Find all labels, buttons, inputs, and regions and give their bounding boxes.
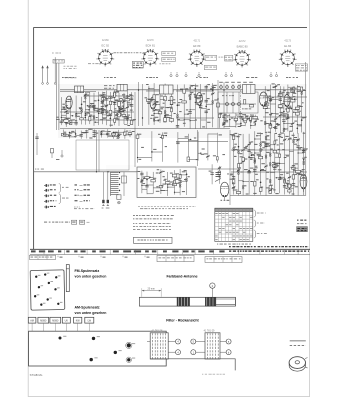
svg-text:Farbband-Antenne: Farbband-Antenne [167,274,198,278]
jack socket symbol [117,195,121,200]
tube V2 socket top view (ECH 81) [141,49,159,66]
oscillator adjustment label block [132,61,143,68]
AF takeoff wire [34,171,137,173]
IF transformer T1 [160,85,174,94]
AF coupling wire [198,168,240,170]
tube V4 pin voltage label boxes [225,55,233,61]
legend symbol row 5 left [44,206,56,209]
antenna note small [52,52,54,55]
voltage table [215,208,253,241]
strip sub-cells right [205,257,242,263]
oscillator coil box L2 [117,84,127,91]
legend brace group 2 [59,194,61,204]
filter F1 terminal 4b [168,351,175,353]
antenna coil box L1 [75,86,84,93]
tube V5a label [221,200,223,201]
tube V3 socket top view (EF 89) [188,50,206,67]
speaker wiring solid [290,340,306,342]
oscillator coupling wires [138,82,140,126]
mixer stage cluster [145,83,176,125]
B+ bus wire [305,62,307,195]
terminal circle 2 [210,283,215,288]
note box [134,237,173,243]
antenna lead wire [55,63,57,130]
legend meter values row [44,222,47,223]
heater wire [36,133,38,155]
strip bottom rule [30,254,310,256]
ratio detector box [218,92,258,113]
legend symbol row 5 right [74,207,95,209]
IF stage cluster [173,83,218,129]
strip sub-cells middle-right [157,255,194,261]
RF input stage cluster [56,96,86,127]
strip sub-cells left [30,255,56,259]
detector cluster [176,132,228,163]
frame border top [34,26,307,28]
strip column ticks [44,249,298,254]
screen partition dash-dot line [240,84,242,120]
svg-text:M080: M080 [40,320,47,323]
filter F2 terminal 5 [191,339,196,344]
RF front-end stage cluster [81,90,136,127]
antenna arrow terminal A1 [41,65,43,68]
legend symbol row 1 left [44,184,56,187]
output transformer internals [137,169,190,196]
legend symbol row 1 right [75,184,90,185]
tube V1 pin voltage labels [114,51,117,54]
bus wire [229,130,231,205]
switch contact stack S1 [111,172,127,196]
bus wire [197,130,199,166]
alignment note text block [133,214,135,217]
legend symbol row 2 right [75,189,90,190]
shield box dashed [76,140,129,170]
svg-text:42173: 42173 [284,39,291,42]
AM coil box [29,331,168,366]
svg-text:von unten gesehen: von unten gesehen [75,274,107,278]
strip row of designators [31,250,36,252]
filter F2 terminal a [220,341,226,343]
FM coil set box [30,270,65,310]
svg-text:EF 89: EF 89 [193,44,201,48]
svg-text:42170: 42170 [147,39,154,42]
tube V3 pin voltage label boxes [205,55,217,60]
antenna arrow terminal A2 [46,65,48,68]
svg-text:UK: UK [65,320,69,323]
bus wire [134,92,136,167]
svg-text:Filter - Rückansicht: Filter - Rückansicht [166,319,199,323]
power supply cluster [230,131,308,195]
20mm dimension [142,290,161,292]
svg-text:FM-Spulensatz: FM-Spulensatz [75,269,100,273]
IF transformer T2 [243,85,256,94]
speaker wiring dashed [290,344,306,346]
tube V1 socket top view (EC 92) [96,49,114,66]
ferrite rod [66,265,69,292]
bracket caption [140,207,143,210]
tube V4 socket top view (EABC 80) [233,50,251,67]
trimmer labels row [104,84,107,87]
push button row [28,317,94,331]
trimmer row above detector box [219,82,253,89]
filter chassis line [150,359,235,371]
frame border left [33,27,35,249]
electrolytic stack [216,172,221,174]
tube V5a envelope [220,182,229,197]
legend brace group 1 [59,184,61,193]
filter footnote [202,373,203,376]
strip right text block [229,246,231,247]
svg-text:20 mm: 20 mm [148,287,155,290]
band label text [65,76,66,79]
legend symbol row 3 right [75,195,90,196]
screen bus wire [96,130,98,172]
input wire [60,91,96,93]
svg-text:41 781-29: 41 781-29 [204,329,215,332]
AGC line components [61,129,134,139]
antenna note text [64,65,66,68]
antenna lead wire [58,63,60,130]
svg-text:42172: 42172 [239,40,246,43]
filter F1 coil body [147,333,168,359]
antenna terminal A3 [54,57,56,82]
filter F2 terminal 1 [191,350,196,355]
measurement jack M1 [102,200,104,203]
legend symbol row 3 left [44,194,56,197]
tube V5 pin voltage label box [295,64,307,71]
tube V2b envelope [150,97,156,109]
svg-text:M080: M080 [52,320,59,323]
tube V5 socket top view (EL 84) [279,50,297,67]
legend symbol row 2 left [44,189,56,192]
filter F2 coil body [205,333,220,359]
svg-text:41 781-28: 41 781-28 [152,329,163,332]
ratio detector wires [217,80,219,128]
svg-text:ECH 81: ECH 81 [146,43,156,47]
tube V1a envelope [66,96,72,109]
part number lines [297,220,299,221]
main HT rail [60,89,305,91]
legend symbol row 4 right [75,200,91,201]
chassis rail [60,128,230,130]
output transformer box [137,167,196,198]
demodulator lower cluster [218,113,259,129]
svg-text:EC 92: EC 92 [102,43,110,47]
svg-text:42169: 42169 [102,39,109,42]
tube V6 envelope [300,174,307,189]
detector box internals [220,92,256,113]
tube V4a envelope [259,92,267,106]
antenna ribbon body [139,297,235,306]
svg-text:von unten gesehen: von unten gesehen [75,311,107,315]
strip top rule [30,248,310,250]
label plate BC [297,227,308,232]
stage title labels [62,77,64,78]
filter F2 terminal b [220,351,226,353]
svg-text:AM-Spulensatz: AM-Spulensatz [75,305,100,309]
loudspeaker magnet [289,357,308,371]
tube V2a envelope [118,98,124,110]
measurement jack M2 [107,200,109,203]
filter F1 terminal 4 [168,341,175,343]
band switch cluster [136,131,167,162]
svg-text:EL 84: EL 84 [284,44,291,48]
tube V2 pin voltage label boxes [162,51,176,55]
legend symbol row 4 left [44,200,56,203]
dipole antenna terminal box [53,59,64,63]
test point row [170,72,278,76]
svg-text:ST/AB Mo: ST/AB Mo [30,373,43,377]
dashed bracket line [138,205,196,207]
AF output stage cluster [260,83,307,133]
tone network cluster [209,164,222,184]
strip scale tick labels [58,256,150,258]
table caption [217,243,218,246]
svg-text:EABC 80: EABC 80 [237,44,249,48]
svg-text:42171: 42171 [193,39,200,42]
wire to measurement jacks [102,172,104,200]
keying sub-circuit [51,149,54,153]
scan tone veil over circuit band [58,84,307,138]
svg-text:AM: AM [30,320,34,323]
tube V3a envelope [196,93,202,106]
tube V4b envelope [284,95,290,107]
table right braces [254,210,256,217]
